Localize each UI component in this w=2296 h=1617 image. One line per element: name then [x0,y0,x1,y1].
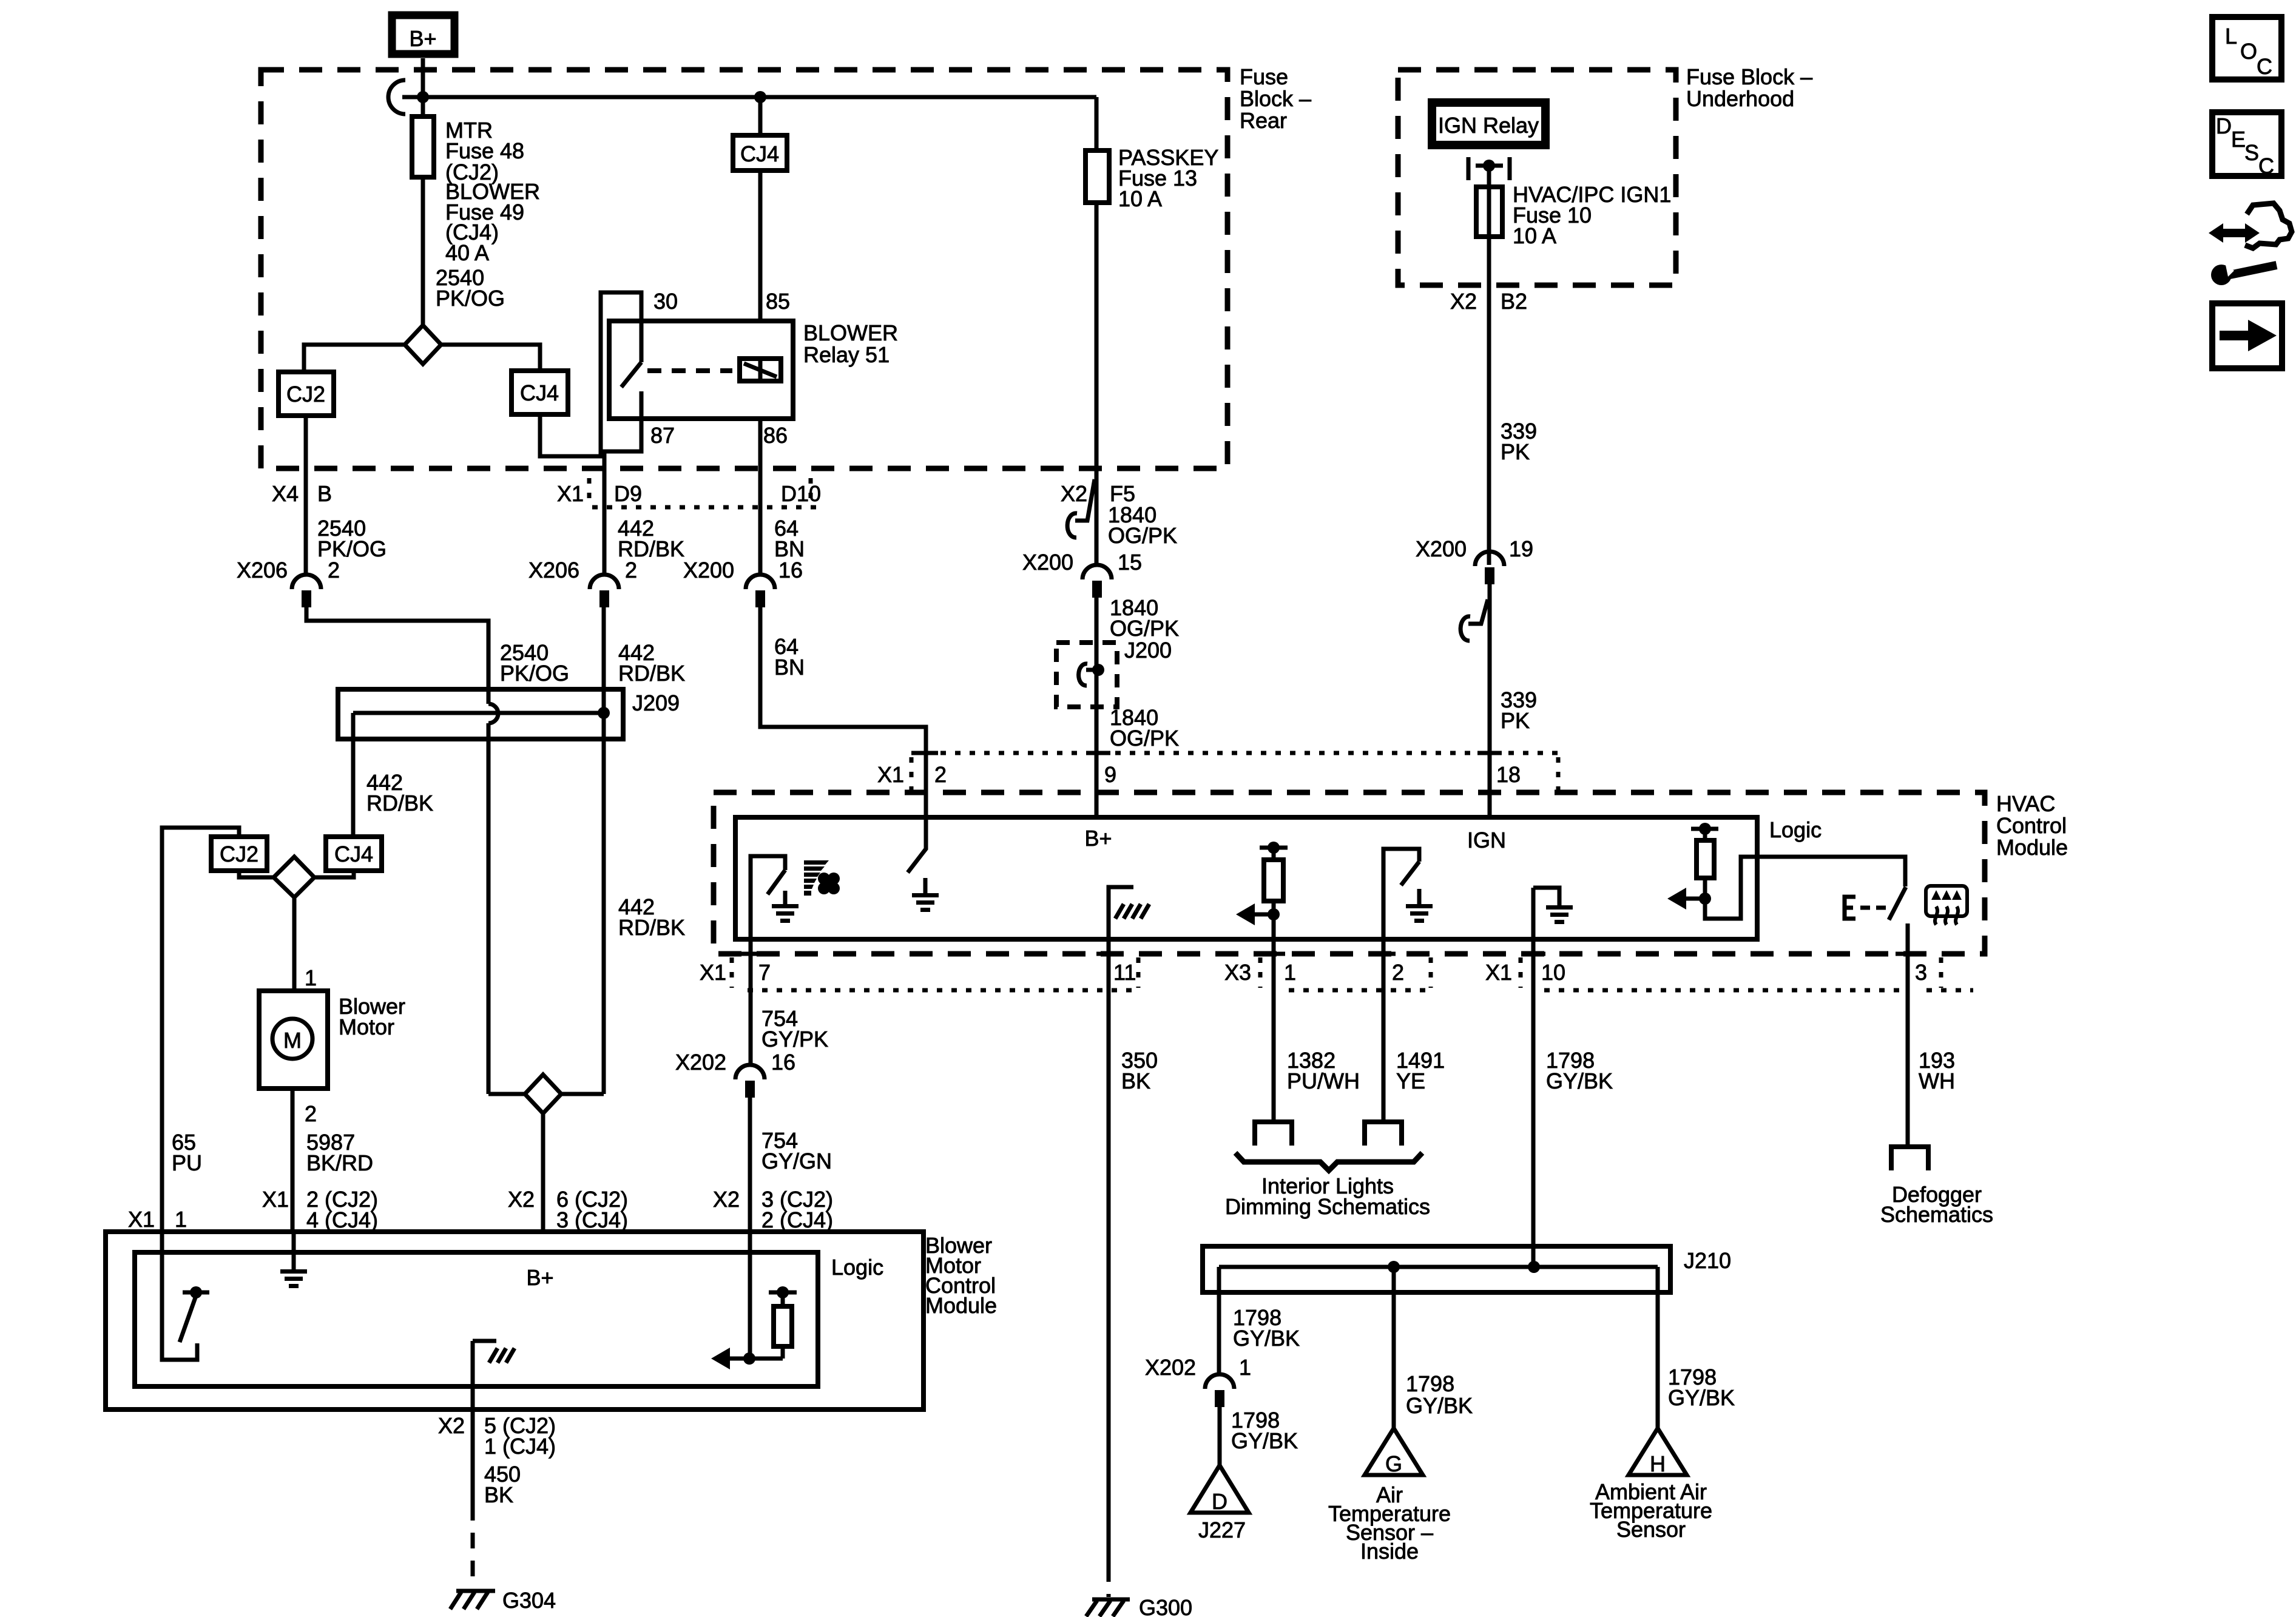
pin labels X2 6 (CJ2) 3 (CJ4) [508,1187,628,1232]
label 1840 OG/PK (second) [1110,595,1179,641]
svg-text:X206: X206 [237,558,288,582]
pin ticks top row [914,751,1502,755]
fuse block underhood dashed border [1398,70,1676,285]
svg-text:CJ4: CJ4 [520,380,559,405]
node J210 dot (pin 10 feed) [1528,1261,1540,1273]
pin 87 label [650,423,675,448]
ground G304 [450,1588,556,1613]
svg-text:X1: X1 [877,762,904,787]
pin row top dotted X1 2 9 18 [911,753,1558,790]
wire relay 87 jog to D9 [604,419,641,575]
svg-text:16: 16 [771,1050,795,1075]
svg-text:1: 1 [1239,1355,1251,1380]
wire diamond to CJ2 [304,345,405,372]
node J210 dot (G sensor) [1388,1261,1400,1273]
relay IGN Relay box [1432,103,1545,145]
svg-text:X1: X1 [1485,960,1512,985]
svg-text:GY/BK: GY/BK [1231,1428,1298,1453]
label 5987 BK/RD [306,1130,373,1175]
switch blower module pin 1 [162,1232,209,1360]
svg-text:X2: X2 [1450,289,1477,314]
icon car with arrow and wrench [2209,203,2292,285]
svg-text:RD/BK: RD/BK [366,791,433,815]
fuse block rear dashed border [261,70,1227,468]
svg-text:Sensor: Sensor [1616,1517,1686,1542]
node junction CJ4 branch on bus [754,91,766,103]
svg-text:10: 10 [1541,960,1565,985]
label 754 GY/GN [761,1128,832,1173]
svg-text:BK/RD: BK/RD [306,1150,373,1175]
wire logic loop to defogger switch [1705,857,1905,919]
svg-text:85: 85 [766,289,790,314]
svg-text:GY/GN: GY/GN [761,1149,832,1173]
svg-text:J210: J210 [1684,1248,1731,1273]
wire 1798 GY/BK pin 10 to J210 [1531,888,1536,1267]
HVAC module inner logic box [735,817,1757,939]
svg-text:B+: B+ [409,26,436,51]
svg-text:Underhood: Underhood [1686,86,1794,111]
fuse HVAC/IPC IGN1 Fuse 10 [1476,166,1502,565]
connector bracket interior lights (right) [1365,1122,1402,1146]
curly brace interior lights [1235,1153,1422,1170]
label 442 RD/BK (second) [618,640,685,686]
pin labels X2 F5 [1061,481,1135,506]
wire diamond to CJ4 [441,345,540,371]
wire J210 internal bus [1219,1265,1658,1269]
wire J210 to G sensor [1392,1267,1396,1428]
splice diamond CJ2/CJ4 to motor [239,857,354,897]
svg-text:PU: PU [172,1150,202,1175]
svg-text:X1: X1 [128,1207,155,1232]
svg-text:G304: G304 [502,1588,556,1613]
label IGN [1467,828,1506,852]
blower motor control module outer box [106,1232,923,1409]
wire diamond to blower module X2 [541,1113,545,1232]
svg-text:87: 87 [650,423,675,448]
wire through J200 [1095,643,1099,707]
wire diamond to blower motor pin 1 [292,897,297,991]
svg-text:1 (CJ4): 1 (CJ4) [484,1434,556,1459]
wire 2540 PK/OG X206 to J209 hop [306,607,488,704]
svg-text:Logic: Logic [1769,817,1822,842]
pin labels X1 7 11 X3 1 2 X1 10 3 [700,960,1927,985]
pin row X1 D9 D10 dotted [589,478,819,507]
svg-text:B+: B+ [1084,826,1112,851]
svg-text:Logic: Logic [831,1255,883,1280]
label 350 BK [1121,1048,1158,1093]
svg-text:16: 16 [778,558,803,582]
svg-text:2: 2 [305,1101,317,1126]
node J200 splice dot and clip [1079,664,1104,686]
node junction B+ on bus [417,91,429,103]
wire defogger output pin 3 [1906,923,1910,1147]
fuse PASSKEY Fuse 13 [1086,97,1109,565]
connector CJ4 (lower) [326,837,382,871]
pin 85 label [766,289,790,314]
label Blower Motor [339,994,405,1039]
pin labels X2 B2 [1450,289,1527,314]
svg-text:Schematics: Schematics [1880,1202,1993,1227]
dashed wire to G300 [1107,1566,1111,1597]
svg-text:GY/BK: GY/BK [1668,1385,1735,1410]
wire 64 BN D10 to HVAC pin 2 [760,607,926,849]
label 1491 YE [1396,1048,1445,1093]
svg-text:HVAC: HVAC [1996,791,2055,816]
wire 1382 PU/WH X3 1 down [1272,914,1276,1121]
svg-text:OG/PK: OG/PK [1108,523,1177,548]
svg-text:Control: Control [1996,813,2067,838]
pin 86 label [763,423,788,448]
label 64 BN (D10) [774,516,805,561]
label B+ (blower module) [526,1265,553,1290]
label Logic (blower module) [831,1255,883,1280]
resistor sensor feed X3 1 [1236,842,1288,925]
svg-text:4 (CJ4): 4 (CJ4) [306,1207,378,1232]
svg-text:1: 1 [175,1207,187,1232]
connector CJ2 (top) [279,372,334,416]
wire 339 PK to HVAC pin 18 [1488,584,1492,817]
label 450 BK [484,1462,521,1507]
wire 65 PU CJ2 up-over-down to blower module [162,828,239,1232]
pin labels X1 1 [128,1207,187,1232]
splice diamond to module X2 [525,1075,561,1113]
svg-text:BN: BN [774,655,805,680]
pin labels X2 3 (CJ2) 2 (CJ4) [713,1187,833,1232]
pin labels X1 2 9 18 [877,762,1521,787]
svg-text:X2: X2 [508,1187,535,1212]
label BLOWER Relay 51 [803,320,898,367]
relay output clip terminals [1468,157,1510,180]
wire 1491 YE pin 2 down [1382,934,1386,1121]
svg-text:IGN Relay: IGN Relay [1438,113,1539,138]
svg-text:40 A: 40 A [445,240,489,265]
svg-text:Block –: Block – [1240,86,1311,111]
svg-text:G300: G300 [1139,1595,1192,1617]
label MTR Fuse 48 (CJ2) BLOWER Fuse 49 (CJ4) 40 A [445,118,540,265]
clip symbol at X2 F5 [1067,479,1095,538]
splice diamond fuse output [405,325,441,364]
svg-text:Motor: Motor [339,1014,394,1039]
pin labels X1 2 (CJ2) 4 (CJ4) [262,1187,378,1232]
svg-text:10 A: 10 A [1118,186,1162,211]
label 339 PK (second) [1501,687,1537,733]
svg-text:GY/BK: GY/BK [1233,1326,1300,1351]
pin 1 label blower motor [305,965,317,990]
wire J210 left leg to X202 [1217,1267,1221,1374]
label HVAC Control Module [1996,791,2068,860]
label 1798 GY/BK (J210 left upper) [1233,1305,1300,1351]
svg-text:PK: PK [1501,439,1530,464]
resistor blower module logic [711,1286,797,1369]
fuse MTR Fuse 48 / BLOWER Fuse 49 [412,97,434,325]
resistor defogger logic (right) [1667,823,1718,910]
label 65 PU [172,1130,202,1175]
blower module inner logic box [135,1252,818,1386]
label 442 RD/BK (third) [366,770,433,815]
label B+ (HVAC) [1084,826,1112,851]
icon box arrow right [2212,303,2282,368]
inline connector X200 pin 15 [1022,550,1142,598]
label 1798 GY/BK (pin 10) [1546,1048,1613,1093]
pin row bottom dotted lines [732,957,1973,990]
wire 2540/442 merge bus [488,1092,604,1096]
connector bracket defogger [1891,1147,1928,1170]
fan rotor icon [818,873,840,894]
wire 2540 PK/OG below J209 [487,723,491,1094]
dashed wire to G304 [471,1505,475,1585]
svg-text:19: 19 [1509,536,1533,561]
label Defogger Schematics [1880,1182,1993,1227]
svg-text:C: C [2258,154,2274,178]
svg-text:RD/BK: RD/BK [618,915,685,940]
svg-text:X3: X3 [1224,960,1251,985]
wire 754 GY/GN to blower module [748,1098,752,1232]
label 1798 GY/BK (J227) [1231,1408,1298,1453]
svg-text:PK/OG: PK/OG [500,661,569,686]
svg-text:X202: X202 [675,1050,726,1075]
svg-text:X4: X4 [272,481,299,506]
inline connector X200 pin 16 [683,558,803,607]
relay coil [740,359,781,381]
svg-text:G: G [1385,1451,1402,1476]
pin ticks bottom row [737,952,1920,956]
label HVAC/IPC IGN1 Fuse 10 10 A [1513,182,1671,248]
fan switch blade [768,870,785,894]
pin labels X4 B [272,481,332,506]
wire X202 to J227 triangle [1218,1407,1222,1465]
svg-text:2: 2 [328,558,340,582]
label J200 [1124,638,1172,663]
svg-text:D: D [1212,1489,1227,1514]
label 2540 PK/OG (second) [500,640,569,686]
wire 350 BK pin 11 down [1107,939,1111,1566]
wire relay pin 85 through coil [758,359,763,381]
wire hop over J209 bus [488,704,498,723]
wire J210 right leg to H sensor [1656,1267,1660,1428]
splice J209 box [338,689,623,739]
svg-text:BK: BK [1121,1068,1150,1093]
svg-text:X1: X1 [700,960,726,985]
svg-text:B+: B+ [526,1265,553,1290]
clip symbol below X200 19 [1460,599,1488,641]
label J227 [1198,1517,1246,1542]
fan switch bracket (pin 7) [751,856,785,939]
svg-text:Inside: Inside [1360,1539,1419,1564]
label Logic (HVAC) [1769,817,1822,842]
wire continuation hook at left of bus [388,80,405,114]
label Air Temperature Sensor - Inside [1328,1482,1451,1564]
switch pin 2 blade [908,817,926,873]
defogger grid icon [1926,886,1967,925]
pin 2 label blower motor [305,1101,317,1126]
svg-text:YE: YE [1396,1068,1425,1093]
svg-text:2: 2 [934,762,947,787]
chassis ground pin 11 [1109,887,1149,939]
wire 2540 PK/OG CJ2 to X206 [304,416,308,575]
svg-text:Module: Module [1996,835,2068,860]
triangle connector H [1629,1428,1687,1476]
wire 442 RD/BK J209 to CJ4 [351,713,356,837]
svg-text:OG/PK: OG/PK [1110,616,1179,641]
label Fuse Block - Rear [1240,64,1311,133]
label 1798 GY/BK (G sensor) [1406,1371,1473,1418]
ground pin 10 (1798) [1533,888,1573,924]
inline connector X206 pin 2 (right) [528,558,637,607]
svg-text:X200: X200 [683,558,734,582]
svg-text:CJ2: CJ2 [286,382,325,407]
svg-text:B: B [317,481,332,506]
svg-text:D: D [2216,113,2232,138]
svg-text:3 (CJ4): 3 (CJ4) [556,1207,628,1232]
svg-text:H: H [1650,1451,1666,1476]
node J209 splice dot [598,707,610,719]
svg-text:GY/BK: GY/BK [1406,1393,1473,1418]
wire relay 86 down to D10 [758,419,763,575]
svg-text:1: 1 [1284,960,1296,985]
pin labels X1 D9 D10 [557,481,821,506]
label 1798 GY/BK (H sensor) [1668,1365,1735,1410]
svg-text:PK/OG: PK/OG [436,286,505,311]
svg-text:PK: PK [1501,708,1530,733]
svg-text:1: 1 [305,965,317,990]
ground under fan switch [772,891,799,923]
svg-text:86: 86 [763,423,788,448]
relay switch contact 30-87 [621,321,641,419]
svg-text:L: L [2225,24,2237,49]
pin labels X2 5 (CJ2) 1 (CJ4) [438,1413,556,1459]
label Interior Lights Dimming Schematics [1225,1173,1430,1219]
svg-text:2 (CJ4): 2 (CJ4) [761,1207,833,1232]
label 1840 OG/PK (first) [1108,502,1177,548]
svg-text:X2: X2 [1061,481,1087,506]
svg-text:D9: D9 [614,481,642,506]
label 339 PK (first) [1501,419,1537,464]
wire 442 RD/BK X206 down through J209 [602,607,606,1094]
svg-text:15: 15 [1118,550,1142,575]
connector CJ4 (top) [512,371,568,414]
ground under 1491 switch [1406,889,1433,923]
connector bracket interior lights (left) [1255,1122,1292,1146]
wire 754 GY/PK pin 7 to X202 [749,939,753,1065]
power symbol B+ [392,15,454,54]
wire J209 internal bus [353,711,604,715]
svg-text:CJ2: CJ2 [220,842,258,866]
svg-text:S: S [2244,140,2259,165]
svg-text:Fuse: Fuse [1240,64,1288,89]
switch pin 2 (1491 YE) bracket [1383,849,1419,934]
svg-text:OG/PK: OG/PK [1110,726,1179,751]
wire 1840 OG/PK to J200 [1095,598,1099,817]
svg-text:10 A: 10 A [1513,223,1556,248]
svg-text:O: O [2240,39,2257,64]
svg-text:B2: B2 [1501,289,1527,314]
svg-text:Module: Module [925,1293,997,1318]
svg-text:X1: X1 [262,1187,289,1212]
svg-text:J200: J200 [1124,638,1172,663]
label J209 [632,690,680,715]
label 754 GY/PK [761,1006,828,1052]
svg-text:X206: X206 [528,558,579,582]
connector CJ4 (bus drop) [733,97,787,321]
triangle connector G [1365,1428,1423,1476]
svg-text:X1: X1 [557,481,584,506]
svg-text:2: 2 [1392,960,1404,985]
svg-text:Dimming Schematics: Dimming Schematics [1225,1194,1430,1219]
svg-text:X200: X200 [1022,550,1073,575]
svg-text:X2: X2 [438,1413,465,1438]
svg-text:CJ4: CJ4 [740,141,779,166]
svg-text:11: 11 [1113,960,1136,985]
HVAC control module dashed border [714,792,1985,954]
ground under pin 2 switch [912,878,939,912]
inline connector X206 pin 2 (left) [237,558,340,607]
svg-text:BLOWER: BLOWER [803,320,898,345]
ground G300 [1086,1595,1192,1617]
blower motor M [259,991,328,1089]
svg-text:GY/BK: GY/BK [1546,1068,1613,1093]
svg-text:7: 7 [758,960,771,985]
svg-text:C: C [2257,54,2272,79]
connector CJ2 (lower) [211,837,267,871]
svg-text:E: E [2231,127,2246,152]
label 2540 PK/OG (X4 B) [317,516,387,561]
svg-text:CJ4: CJ4 [334,842,373,866]
triangle connector D J227 [1190,1465,1249,1514]
wire top B+ bus [402,95,1096,100]
svg-text:9: 9 [1104,762,1116,787]
wire 754 GY/GN into logic [748,1232,752,1359]
label 442 RD/BK (D9) [618,516,684,561]
switch drive E symbol [1845,897,1886,919]
svg-text:30: 30 [653,289,678,314]
inline connector X202 pin 1 [1145,1355,1251,1407]
label 1840 OG/PK (third) [1110,705,1179,751]
svg-text:Relay 51: Relay 51 [803,342,890,367]
splice J210 box [1203,1246,1670,1292]
label 442 RD/BK (fourth) [618,894,685,940]
defogger switch blade [1889,887,1906,920]
wire B+ feed down to bus [421,58,425,97]
svg-text:X202: X202 [1145,1355,1196,1380]
svg-text:2: 2 [625,558,637,582]
label Fuse Block - Underhood [1686,64,1812,111]
label 64 BN (second) [774,634,805,680]
svg-text:X200: X200 [1416,536,1467,561]
wire CJ4 to relay pin 30 [540,292,641,456]
svg-text:IGN: IGN [1467,828,1506,852]
label 193 WH [1919,1048,1955,1093]
splice J200 dashed box [1056,643,1117,707]
svg-text:WH: WH [1919,1068,1955,1093]
svg-text:1798: 1798 [1406,1371,1454,1396]
label 1382 PU/WH [1287,1048,1360,1093]
svg-text:M: M [283,1028,302,1053]
pin 30 label [653,289,678,314]
relay K BLOWER Relay 51 box [609,321,793,419]
svg-text:18: 18 [1496,762,1521,787]
svg-text:GY/PK: GY/PK [761,1027,828,1052]
svg-text:PU/WH: PU/WH [1287,1068,1360,1093]
svg-text:RD/BK: RD/BK [618,661,685,686]
svg-text:BK: BK [484,1482,513,1507]
label Blower Motor Control Module [925,1233,997,1318]
svg-text:J209: J209 [632,690,680,715]
wire ground return X2 5/1 [471,1341,475,1505]
icon box LOC [2212,17,2281,79]
svg-text:J227: J227 [1198,1517,1246,1542]
svg-text:Rear: Rear [1240,108,1287,133]
inline connector X202 pin 16 [675,1050,795,1098]
